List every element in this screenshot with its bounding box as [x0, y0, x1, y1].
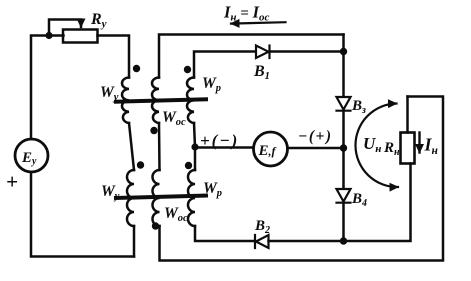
winding Wy upper — [122, 78, 129, 124]
junction dot Wp middle — [191, 143, 198, 150]
core upper — [116, 99, 206, 101]
polarity dot Wy upper — [133, 65, 140, 72]
wire Wp upper bottom to middle junction — [194, 123, 195, 148]
wire Woc upper to Woc lower — [158, 123, 161, 170]
polarity dot Woc upper — [150, 127, 157, 134]
polarity dot Wy lower — [137, 161, 144, 168]
wire Wp upper top stub — [194, 52, 256, 78]
source E,f — [254, 132, 288, 166]
wire middle right (source E,f to bus) — [288, 147, 344, 150]
wire Woc upper top to right bus corner — [159, 35, 344, 78]
current direction arrow under In = Ioc — [231, 22, 286, 23]
wire load top stub — [406, 97, 409, 133]
winding Wp upper — [187, 78, 194, 124]
svg-text:+(−): +(−) — [200, 131, 239, 150]
diode B3 — [337, 97, 351, 111]
wire Ey bottom to lower-left corner — [31, 172, 134, 257]
wire Wp lower bottom to B2 wire — [195, 226, 255, 241]
wire Ry to winding Wy upper — [98, 36, 130, 78]
wire B1 anode (Wp top wire continues) — [270, 50, 344, 53]
polarity dot Woc lower — [152, 222, 159, 229]
svg-text:−(+): −(+) — [298, 128, 333, 145]
rheostat Ry tap wire with arrow — [49, 20, 81, 34]
voltage arc Un — [355, 104, 398, 188]
right bus vertical middle segment — [342, 111, 345, 189]
diode B4 — [337, 189, 351, 203]
right bus vertical bottom segment — [342, 203, 345, 241]
polarity dot Wp lower — [185, 162, 192, 169]
svg-text:+: + — [6, 170, 18, 194]
wire Wy upper to Wy lower — [129, 123, 134, 170]
right bus vertical top segment — [342, 35, 345, 97]
winding Wp lower — [188, 170, 195, 226]
junction dot bus top — [340, 48, 347, 55]
wire Wy lower bottom stub — [133, 226, 136, 257]
current arrow In at load — [418, 133, 420, 153]
svg-text:E,f: E,f — [258, 143, 277, 159]
junction dot bus middle — [340, 144, 347, 151]
polarity dot Wp upper — [184, 66, 191, 73]
resistor Ry (rheostat) — [63, 30, 98, 43]
wire middle left (junction to source E,f) — [195, 146, 254, 149]
junction dot bus bottom — [340, 237, 347, 244]
wire left vertical from Ry junction down to Ey top — [31, 36, 64, 140]
load resistor Rn — [401, 133, 415, 164]
winding Woc upper — [152, 78, 159, 124]
core lower — [116, 196, 206, 199]
wire Woc lower bottom to outer loop (load return) — [160, 97, 444, 261]
diode B1 — [256, 46, 270, 59]
diode B2 — [255, 235, 269, 248]
source Ey — [15, 139, 48, 172]
junction dot at Ry tap — [45, 32, 52, 39]
winding Wy lower — [127, 170, 134, 226]
wire B2 to load bottom corner — [269, 164, 411, 242]
winding Woc lower — [153, 170, 160, 226]
wire junction to Wp lower — [194, 148, 197, 171]
